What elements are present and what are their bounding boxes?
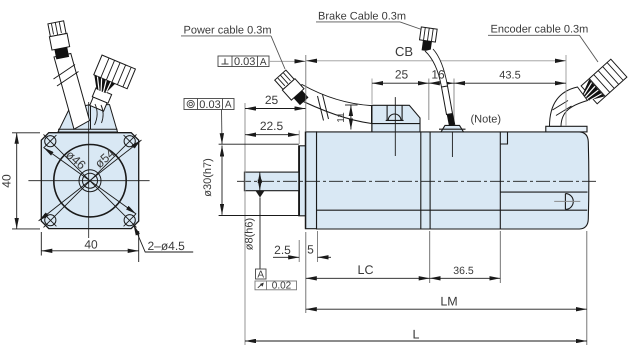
extension line boss face lower [298,240,300,262]
brake cable pass line [451,132,453,157]
svg-text:L: L [413,328,420,342]
mounting hole top-left [45,136,56,147]
side view centerline [237,180,597,182]
D symbol crosshair [554,200,580,202]
svg-text:11: 11 [336,112,347,123]
side power cable break marks [318,95,329,121]
dim ø8 line [259,172,261,191]
brake cable lower tube [442,86,453,115]
pilot circle (ø30 boss) [54,145,126,217]
encoder section upper line [500,191,587,193]
ø54 dimension line (-38deg) [39,140,142,221]
connector cap [48,21,66,37]
hole cross BL [44,214,56,226]
dim L line [245,340,587,342]
extension line flange face bottom [305,232,307,313]
svg-text:Brake Cable 0.3m: Brake Cable 0.3m [318,11,406,23]
extension line shaft end (x=245) [244,103,246,345]
extension line 25/16 (x=428.8) [428,79,430,121]
side encoder connector [578,59,627,106]
svg-text:43.5: 43.5 [499,70,520,82]
dim 5 arrow line [318,256,332,258]
front power cable break marks [54,65,79,87]
dim 36.5 line [430,277,501,279]
svg-text:22.5: 22.5 [260,119,284,133]
svg-text:Encoder cable 0.3m: Encoder cable 0.3m [491,24,589,36]
terminal box [372,105,420,132]
dim ø30 line [221,146,223,215]
svg-text:0.03: 0.03 [199,99,220,111]
dim 11 tick [345,104,358,106]
svg-text:ø30(h7): ø30(h7) [202,158,214,197]
brake terminal bump [441,125,464,131]
motor body [317,132,589,229]
CABLES [47,21,627,130]
svg-text:CB: CB [395,44,413,59]
connector ridges [101,58,131,87]
hat divider [90,105,92,130]
svg-text:40: 40 [84,238,98,252]
hole cross TL [44,135,56,147]
extension line body right (x=586.8) [586,231,588,345]
hole cross BR [124,214,136,226]
dim 40 horizontal line [41,250,138,252]
side encoder break marks [553,101,572,116]
runout frame [255,281,297,290]
svg-text:ø8(h6): ø8(h6) [244,218,256,250]
dim 25 top line [372,82,429,84]
brake cable lower band [447,114,456,126]
mounting hole top-right [124,136,135,147]
svg-text:A: A [225,100,232,111]
diagonal TL-BR through holes [44,134,137,227]
dim 40 vertical ticks [12,132,40,134]
flange front face bold edge [305,132,307,229]
extension line flange face (x=305.6) top [305,55,307,131]
side power cable tube [293,85,372,124]
notch at encoder joint [500,132,507,144]
svg-text:LM: LM [440,295,457,309]
side power connector [274,69,310,107]
svg-text:A: A [257,270,264,281]
side encoder fan [578,79,604,106]
dim 11 line [350,105,352,130]
grommet base [386,119,404,121]
svg-text:A: A [260,57,267,68]
encoder fan wires [90,75,116,95]
mounting hole bottom-left [45,215,56,226]
dim 43.5 line [454,82,566,84]
svg-text:2–ø4.5: 2–ø4.5 [148,239,186,253]
perpendicularity frame [218,56,269,67]
shaft ø8 [244,172,298,191]
pilot boss ø30 [299,146,306,216]
dim CB line [306,60,566,62]
cable entry boss (hat) on flange top [58,105,118,132]
encoder boot collar 1 [92,88,111,103]
dim 22.5 line [245,134,299,136]
extension line flange back (x=317.5) [317,231,319,262]
label 2-ø4.5 leader [134,225,194,253]
body lower skirt line [317,209,588,211]
front view horizontal centerline [28,180,149,182]
svg-text:5: 5 [307,243,314,257]
svg-text:Power cable 0.3m: Power cable 0.3m [184,25,272,37]
extension line encoder joint lower (x=500.3) [499,231,501,283]
dim 2.5 arrow line [273,256,299,258]
hat base line [58,128,118,130]
dim 40 horizontal ticks [40,232,42,256]
svg-text:2.5: 2.5 [274,243,291,257]
extension line brake center (x=454) [453,79,455,125]
svg-text:25: 25 [395,68,409,82]
svg-text:40: 40 [0,174,14,188]
ø46 dimension line (35.7deg) [43,147,136,214]
BRAKE CABLE (over dims) [418,27,455,126]
dim LC line [306,277,430,279]
diagonal BL-TR through holes [44,134,137,227]
dim 16 line [429,82,454,84]
mounting flange plate [305,132,316,229]
svg-text:(Note): (Note) [471,114,502,126]
connector screw D symbol [565,194,573,210]
datum A box [256,269,267,279]
extension line CB right (x=566) [565,55,567,126]
svg-text:0.02: 0.02 [272,280,292,291]
front power cable tube [54,54,90,130]
front view vertical centerline [88,102,90,238]
brake cable [425,49,448,87]
dim ø30 extension ticks [219,143,299,145]
grommet dome [388,114,401,120]
mounting hole bottom-right [124,215,135,226]
perpendicularity leader [269,60,306,62]
svg-text:0.03: 0.03 [234,56,255,68]
grommet walls [387,105,402,120]
concentricity frame [184,99,234,110]
front encoder cable creases [95,104,104,125]
boss front face bold edge [298,146,300,216]
brake terminal base [439,128,466,130]
extension line boss face (x=299.2) [298,131,300,145]
side encoder cable tube [550,87,588,126]
FRONT VIEW [28,102,149,238]
hole cross TR [124,135,136,147]
extension line joint (x=428.4) lower [429,231,431,283]
svg-text:LC: LC [358,263,374,277]
terminal box centerline [394,97,396,156]
connector body [49,33,69,50]
svg-text:16: 16 [431,68,445,82]
shaft circles [79,170,101,192]
front encoder connector [82,55,135,116]
extension line terminal box left (x=372) [371,79,373,105]
terminal box left edge repaint [371,105,373,132]
body joint line 2 [429,132,431,229]
dim 25 left line [245,108,305,110]
terminal box base line [372,123,420,125]
SIDE VIEW [237,79,597,230]
dim LM line [306,308,587,310]
encoder section joint [499,132,501,229]
motor flange square (40x40) [41,133,138,229]
concentricity leader [221,110,224,145]
datum A triangle [256,191,265,198]
svg-text:36.5: 36.5 [453,265,474,277]
connector band [54,47,69,59]
encoder boot collar 2 [90,97,107,111]
body joint line 1 [420,132,422,229]
brake connector [418,27,437,52]
svg-text:25: 25 [265,93,279,107]
connector body [94,55,136,89]
datum A leader [259,198,261,270]
front power connector [47,21,72,60]
dim 40 vertical line [16,133,18,229]
encoder connector plate [546,126,587,132]
